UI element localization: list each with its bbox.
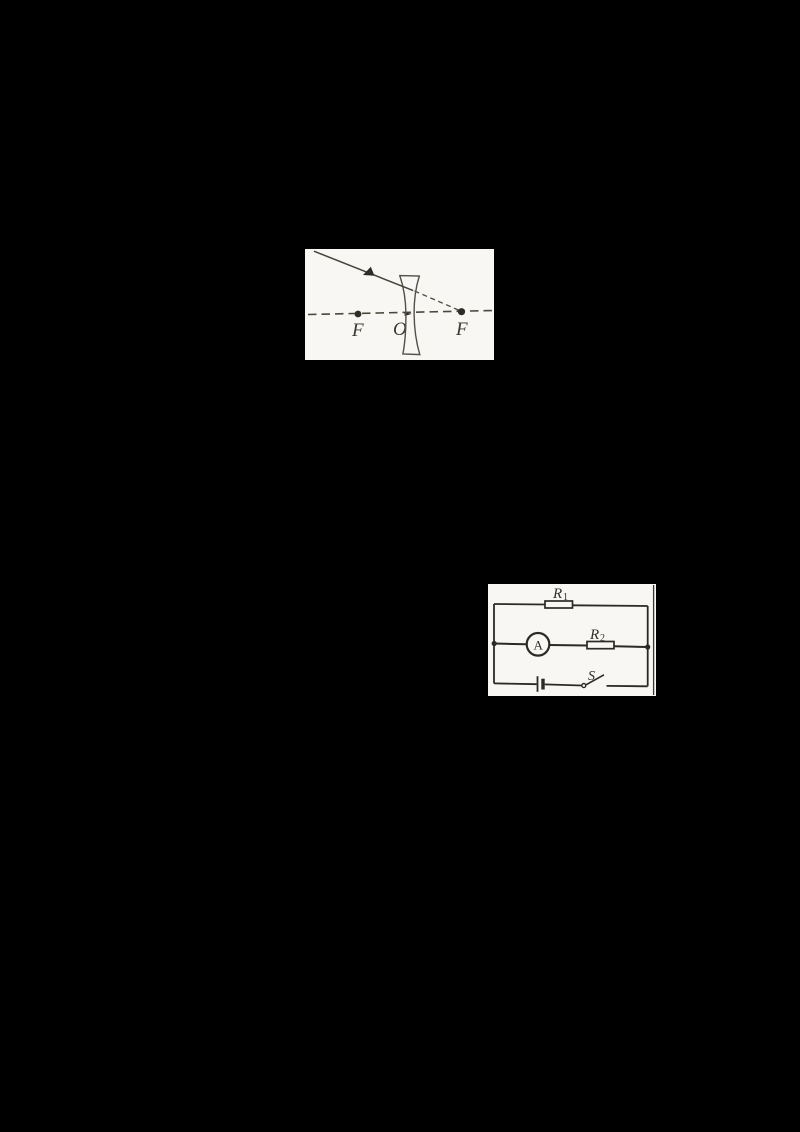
focal point F (left) [355, 311, 362, 318]
wire: right vertical [647, 606, 649, 686]
circuit figure panel [488, 584, 656, 696]
ammeter A [527, 633, 550, 656]
svg-text:2: 2 [600, 633, 605, 644]
switch hinge contact [582, 684, 586, 688]
wire: middle branch center [549, 644, 587, 647]
incident ray arrowhead [363, 267, 375, 276]
wire: middle branch left [494, 643, 527, 646]
wire: top right segment [573, 604, 648, 607]
optical axis [308, 311, 493, 315]
junction node right [645, 644, 650, 649]
svg-text:A: A [534, 638, 544, 653]
junction node left [492, 641, 497, 646]
svg-text:R: R [589, 627, 599, 643]
focal point F (right) [458, 308, 465, 315]
svg-text:F: F [455, 319, 468, 340]
wire: bottom mid segment [545, 684, 582, 685]
wire: left vertical [493, 604, 495, 683]
battery long plate [537, 676, 539, 692]
svg-text:S: S [588, 669, 595, 684]
incident ray [314, 251, 413, 290]
wire: middle branch right [614, 645, 648, 648]
wire: top left segment [494, 603, 545, 606]
svg-text:1: 1 [563, 592, 568, 603]
wire: bottom left segment [494, 682, 537, 685]
svg-text:F: F [351, 320, 364, 341]
lens center O marker [405, 312, 412, 316]
wire: bottom right segment [607, 685, 648, 687]
lens figure panel [305, 249, 494, 360]
virtual ray extension (dashed to right focus) [415, 291, 464, 312]
concave lens [400, 276, 420, 355]
switch blade [586, 675, 604, 685]
battery short plate [541, 679, 544, 690]
panel right border line [653, 585, 655, 695]
resistor R1 [545, 601, 573, 608]
svg-text:R: R [552, 586, 562, 602]
resistor R2 [587, 642, 614, 649]
